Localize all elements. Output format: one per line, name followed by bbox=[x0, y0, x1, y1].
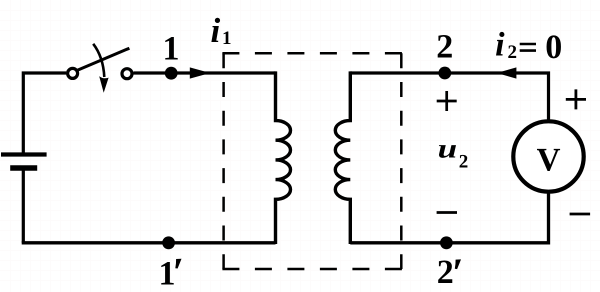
node 1 (filled dot) bbox=[165, 67, 178, 80]
current arrow i1 (points right) bbox=[190, 67, 210, 78]
wire: battery - down to bottom rail bbox=[22, 170, 25, 243]
node 1' (filled dot) bbox=[162, 236, 175, 249]
svg-text:1: 1 bbox=[163, 31, 180, 68]
svg-text:2: 2 bbox=[437, 254, 454, 291]
svg-text:0: 0 bbox=[545, 29, 562, 66]
svg-text:u: u bbox=[438, 134, 458, 164]
node 2' (filled dot) bbox=[440, 236, 453, 249]
voltmeter V circle bbox=[513, 121, 583, 191]
switch S fixed terminal (right open circle) bbox=[122, 69, 132, 79]
svg-text:i: i bbox=[211, 11, 221, 50]
switch S pivot terminal (left open circle) bbox=[68, 68, 78, 78]
plus sign at node 2 (u2 polarity +) bbox=[437, 91, 457, 111]
svg-text:2: 2 bbox=[459, 151, 469, 172]
switch closing motion arrowhead bbox=[99, 76, 108, 93]
svg-text:V: V bbox=[537, 142, 561, 178]
wire: switch to primary coil top bbox=[134, 71, 276, 74]
plus sign right of voltmeter bbox=[566, 89, 586, 109]
svg-text:i: i bbox=[495, 27, 505, 64]
svg-text:2: 2 bbox=[436, 29, 453, 66]
switch S blade bbox=[76, 48, 129, 71]
wire: battery + up and right to switch left terminal bbox=[23, 73, 66, 153]
svg-text:1: 1 bbox=[159, 256, 176, 292]
primary winding L1 bbox=[276, 71, 291, 244]
node 2 (filled dot) bbox=[438, 67, 451, 80]
wire: voltmeter bottom to secondary coil bottom (bottom-right rail) bbox=[350, 190, 548, 243]
svg-text:2: 2 bbox=[508, 42, 518, 63]
transformer dashed boundary box bbox=[222, 53, 402, 269]
minus sign right below voltmeter bbox=[570, 213, 591, 216]
svg-text:1: 1 bbox=[222, 28, 232, 49]
secondary winding L2 bbox=[335, 71, 350, 244]
minus sign at node 2' (u2 polarity -) bbox=[437, 211, 457, 214]
battery B1 negative plate (short) bbox=[10, 165, 37, 170]
wire: bottom rail left (battery to primary coil) bbox=[22, 241, 276, 244]
battery B1 positive plate (long) bbox=[1, 152, 47, 156]
wire: secondary coil top to voltmeter (top-right rail) bbox=[350, 73, 548, 125]
switch closing motion arc bbox=[93, 44, 104, 77]
current arrow i2 (points left) bbox=[497, 67, 517, 78]
